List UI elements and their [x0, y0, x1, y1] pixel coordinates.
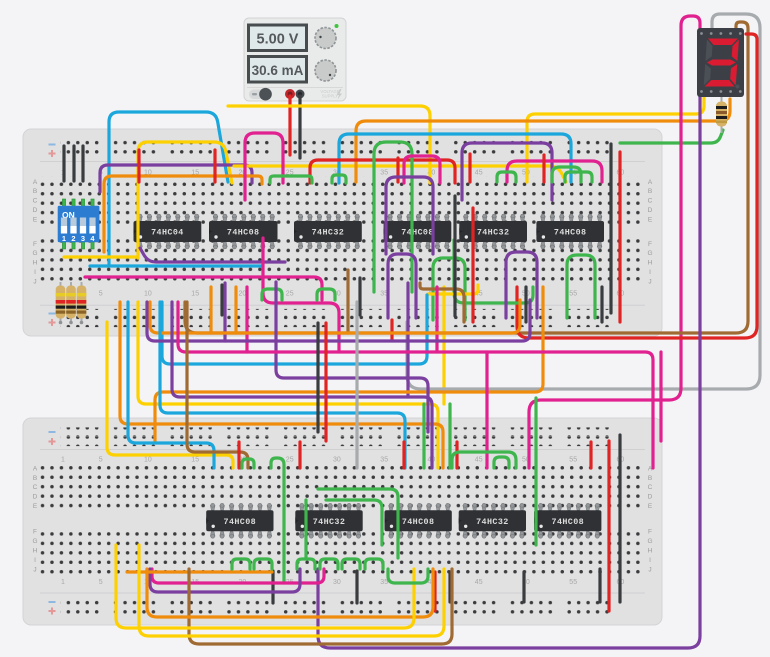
svg-text:15: 15 [191, 457, 199, 464]
svg-text:15: 15 [191, 291, 199, 298]
svg-text:2: 2 [71, 234, 75, 243]
svg-text:30: 30 [333, 457, 341, 464]
svg-text:5.00 V: 5.00 V [257, 32, 299, 48]
svg-text:D: D [648, 494, 653, 501]
svg-text:F: F [33, 529, 37, 536]
svg-text:1: 1 [61, 579, 65, 586]
svg-text:J: J [648, 279, 651, 286]
svg-text:74HC32: 74HC32 [476, 517, 509, 527]
svg-text:74HC32: 74HC32 [313, 517, 346, 527]
svg-text:C: C [648, 484, 653, 491]
svg-text:1: 1 [61, 457, 65, 464]
svg-text:74HC08: 74HC08 [554, 228, 587, 238]
svg-text:10: 10 [144, 291, 152, 298]
svg-text:G: G [647, 250, 652, 257]
svg-text:B: B [33, 188, 37, 195]
svg-text:5: 5 [99, 579, 103, 586]
svg-text:H: H [648, 260, 653, 267]
svg-text:F: F [648, 529, 652, 536]
svg-text:45: 45 [475, 579, 483, 586]
svg-text:D: D [648, 207, 653, 214]
svg-text:25: 25 [286, 457, 294, 464]
svg-text:B: B [33, 475, 37, 482]
svg-text:G: G [32, 250, 37, 257]
svg-text:J: J [33, 566, 36, 573]
svg-text:74HC08: 74HC08 [401, 228, 434, 238]
svg-text:74HC32: 74HC32 [477, 228, 510, 238]
svg-text:A: A [33, 465, 38, 472]
svg-text:E: E [648, 217, 653, 224]
svg-text:E: E [33, 217, 38, 224]
svg-text:1: 1 [62, 234, 66, 243]
svg-text:20: 20 [239, 291, 247, 298]
svg-text:E: E [648, 503, 653, 510]
svg-text:74HC08: 74HC08 [552, 517, 585, 527]
svg-text:I: I [34, 269, 36, 276]
svg-text:E: E [33, 503, 38, 510]
svg-text:G: G [32, 538, 37, 545]
svg-text:G: G [647, 538, 652, 545]
svg-text:D: D [33, 207, 38, 214]
svg-text:74HC08: 74HC08 [402, 517, 435, 527]
svg-text:B: B [648, 188, 652, 195]
svg-text:SUPPLY: SUPPLY [322, 94, 338, 99]
svg-text:B: B [648, 475, 652, 482]
svg-text:J: J [33, 279, 36, 286]
svg-text:74HC08: 74HC08 [227, 228, 260, 238]
svg-text:3: 3 [81, 234, 85, 243]
svg-text:F: F [648, 241, 652, 248]
svg-text:C: C [33, 484, 38, 491]
svg-text:10: 10 [144, 457, 152, 464]
svg-text:74HC32: 74HC32 [312, 228, 345, 238]
svg-text:45: 45 [475, 170, 483, 177]
svg-text:55: 55 [569, 579, 577, 586]
svg-text:I: I [649, 269, 651, 276]
svg-text:25: 25 [286, 291, 294, 298]
svg-text:A: A [648, 179, 653, 186]
svg-text:H: H [33, 547, 38, 554]
svg-text:35: 35 [380, 579, 388, 586]
svg-text:74HC08: 74HC08 [224, 517, 257, 527]
svg-text:45: 45 [475, 457, 483, 464]
svg-text:74HC04: 74HC04 [151, 228, 184, 238]
svg-text:H: H [33, 260, 38, 267]
svg-text:55: 55 [569, 291, 577, 298]
svg-text:5: 5 [99, 457, 103, 464]
svg-text:F: F [33, 241, 37, 248]
svg-text:I: I [34, 557, 36, 564]
svg-text:A: A [33, 179, 38, 186]
svg-text:C: C [33, 198, 38, 205]
svg-text:30.6 mA: 30.6 mA [252, 63, 304, 78]
svg-text:30: 30 [333, 579, 341, 586]
svg-text:D: D [33, 494, 38, 501]
svg-text:55: 55 [569, 457, 577, 464]
svg-text:35: 35 [380, 170, 388, 177]
svg-text:J: J [648, 566, 651, 573]
svg-text:35: 35 [380, 457, 388, 464]
svg-text:H: H [648, 547, 653, 554]
svg-text:5: 5 [99, 291, 103, 298]
svg-text:C: C [648, 198, 653, 205]
svg-text:I: I [649, 557, 651, 564]
